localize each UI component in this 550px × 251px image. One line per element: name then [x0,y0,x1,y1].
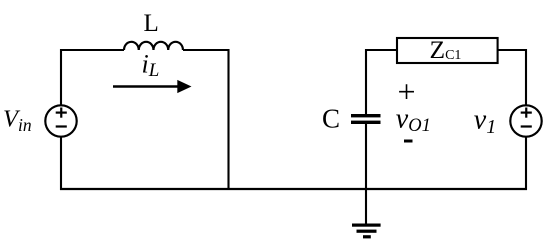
polarity minus of vO1 [404,140,413,143]
voltage source Vin [45,105,76,136]
wire top-mid horizontal from inductor to right branch [183,49,230,51]
wire capacitor branch top vertical [365,49,367,114]
wire v1 bottom vertical [525,137,527,190]
wire ZC1 box right to v1 branch [499,49,528,51]
voltage source v1 [510,105,541,136]
svg-text:L: L [144,10,159,37]
wire Vin bottom vertical [60,137,62,190]
inductor L [124,42,183,50]
wire capacitor bottom vertical to ground [365,124,367,224]
wire right side of left loop vertical [227,49,229,190]
wire v1 top vertical [525,49,527,106]
capacitor C plates [351,114,381,124]
wire capacitor top to ZC1 box [366,49,397,51]
impedance ZC1 box [397,38,498,63]
wire top-left horizontal from Vin to inductor [60,49,124,51]
svg-text:C: C [322,104,340,134]
wire bottom rail [60,188,527,190]
current arrow iL [113,80,192,93]
wire Vin top vertical [60,49,62,106]
ground [352,224,381,239]
